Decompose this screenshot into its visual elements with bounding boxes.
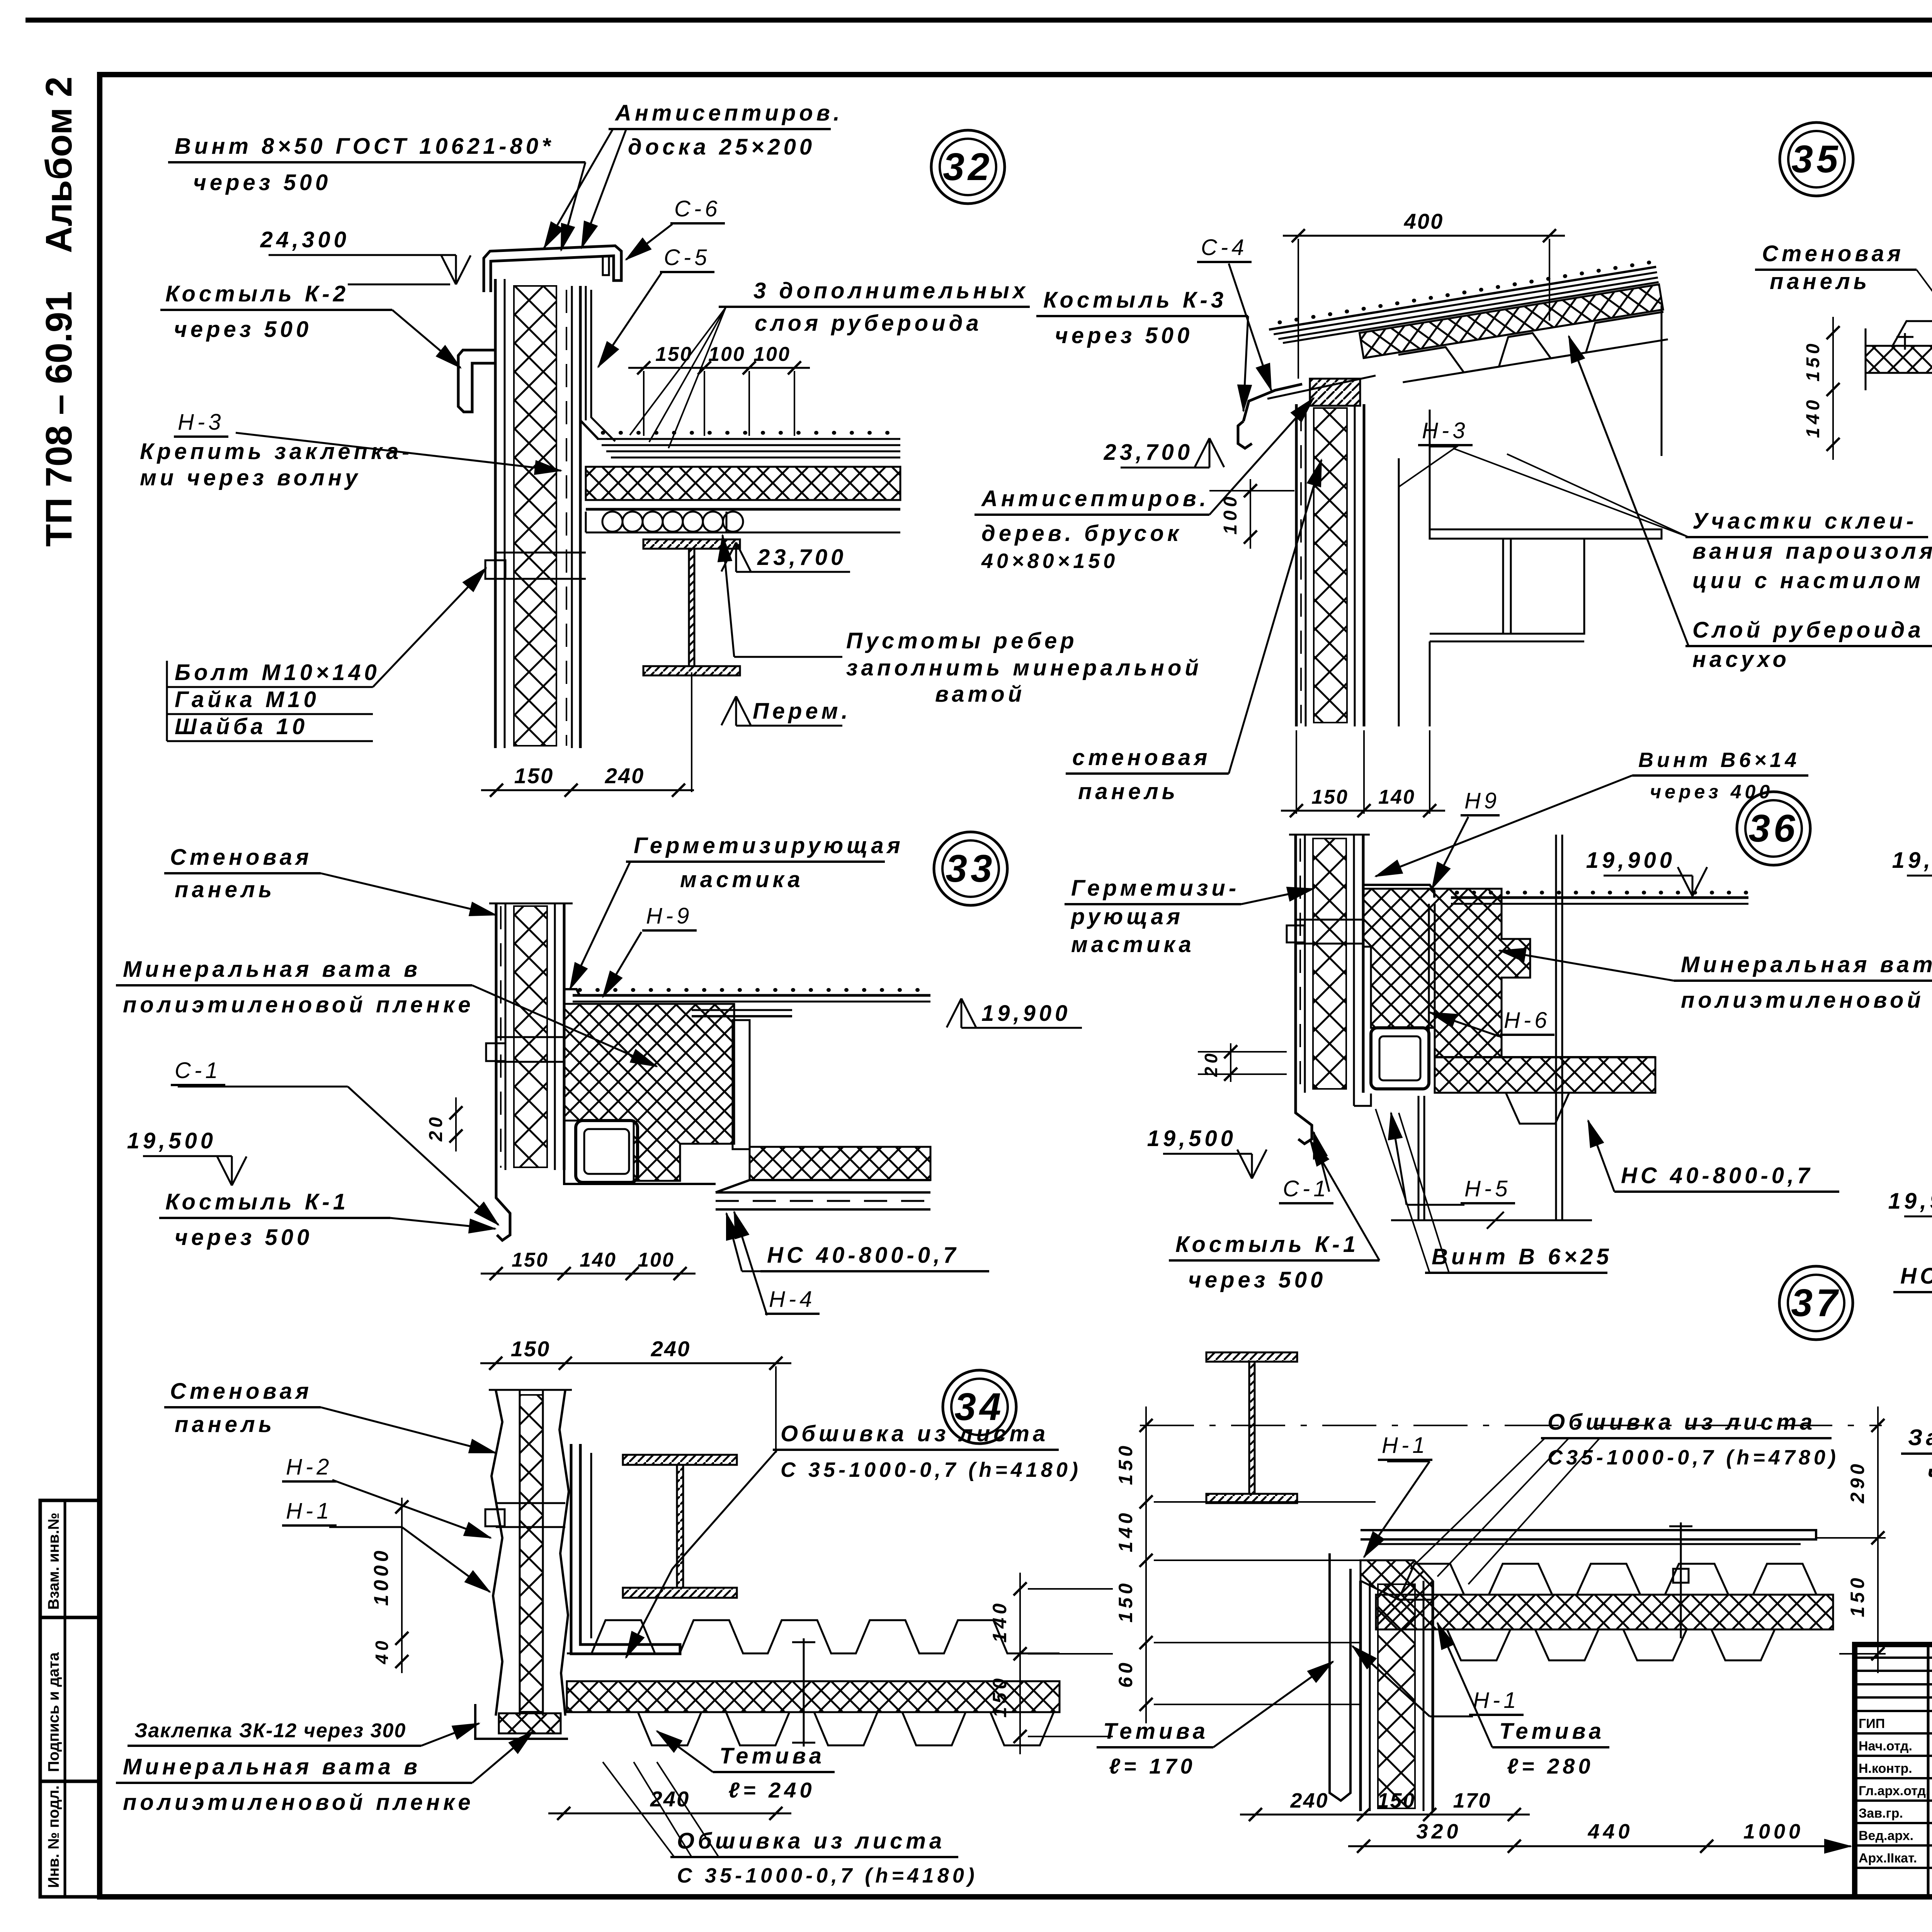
detail 36 wall panel xyxy=(1294,835,1297,1093)
svg-text:33: 33 xyxy=(946,847,995,890)
svg-text:ции с настилом: ции с настилом xyxy=(1692,568,1924,593)
left attachment box Подпись и дата xyxy=(40,1617,100,1781)
svg-text:Н-6: Н-6 xyxy=(1504,1008,1550,1033)
svg-text:150: 150 xyxy=(512,1249,549,1271)
svg-text:Винт 8×50 ГОСТ 10621-80*: Винт 8×50 ГОСТ 10621-80* xyxy=(175,134,554,159)
svg-text:Пустоты ребер: Пустоты ребер xyxy=(846,628,1078,653)
svg-text:НС 40-800-0,7: НС 40-800-0,7 xyxy=(767,1243,959,1268)
svg-text:150: 150 xyxy=(1115,1580,1136,1622)
elevation Перем. xyxy=(735,696,737,726)
svg-text:Н-1: Н-1 xyxy=(286,1498,332,1524)
svg-text:рующая: рующая xyxy=(1070,904,1184,929)
svg-text:Шайба 10: Шайба 10 xyxy=(175,714,308,739)
svg-text:ми через волну: ми через волну xyxy=(140,465,361,490)
detail 36 ceiling line el 19900 xyxy=(1457,891,1746,895)
svg-text:Обшивка из листа: Обшивка из листа xyxy=(1548,1410,1816,1435)
dimension 150 140 bottom of detail 35 xyxy=(1281,810,1445,812)
svg-text:заполнить минеральной: заполнить минеральной xyxy=(846,655,1202,680)
svg-text:С-5: С-5 xyxy=(664,245,710,270)
detail 37 rail bolt xyxy=(1680,1522,1682,1638)
svg-text:150: 150 xyxy=(1377,1789,1415,1812)
svg-text:150: 150 xyxy=(1803,340,1823,381)
svg-text:60: 60 xyxy=(1115,1659,1136,1688)
svg-text:35: 35 xyxy=(1791,138,1841,181)
svg-text:100: 100 xyxy=(708,343,745,366)
detail 32 steel beam under deck xyxy=(643,539,740,549)
dimension 140 150 right of detail 34 xyxy=(1019,1573,1021,1754)
dimension 20 detail 36 xyxy=(1230,1043,1231,1082)
detail 37 corner hatched block xyxy=(1361,1560,1433,1600)
sheet outer top border line xyxy=(26,18,1932,23)
svg-text:Н9: Н9 xyxy=(1464,788,1500,813)
svg-text:140: 140 xyxy=(989,1600,1010,1643)
svg-text:Гайка М10: Гайка М10 xyxy=(175,687,320,712)
svg-text:Обшивка из листа: Обшивка из листа xyxy=(781,1421,1049,1446)
svg-text:19,500: 19,500 xyxy=(1147,1126,1236,1151)
svg-text:290: 290 xyxy=(1847,1461,1868,1503)
detail 32 roof membrane layers xyxy=(603,431,888,435)
svg-text:ТП 708 – 60.91: ТП 708 – 60.91 xyxy=(38,291,80,547)
detail 32 bolt through panel xyxy=(485,560,505,579)
svg-text:440: 440 xyxy=(1587,1820,1633,1843)
svg-text:140: 140 xyxy=(1115,1510,1136,1552)
svg-text:ГИП: ГИП xyxy=(1859,1716,1885,1731)
detail 32 panel vapour barrier dashed line xyxy=(566,290,567,746)
svg-text:150: 150 xyxy=(1847,1575,1868,1617)
detail 36 square tube xyxy=(1371,1028,1429,1089)
svg-text:слоя рубероида: слоя рубероида xyxy=(755,311,982,336)
dimension 150 140 100 detail 33 xyxy=(481,1273,696,1275)
detail 35 purlin and web members xyxy=(1398,458,1400,572)
svg-text:Винт В 6×25: Винт В 6×25 xyxy=(1432,1244,1612,1269)
detail 35 wood block on wall top xyxy=(1310,379,1360,406)
leader to cap xyxy=(561,162,585,250)
svg-text:23,700: 23,700 xyxy=(1104,440,1193,465)
title block vertical dividers xyxy=(1927,1645,1930,1897)
svg-text:ℓ= 240: ℓ= 240 xyxy=(728,1778,815,1802)
detail 33 bottom flashing C-1 xyxy=(496,1170,510,1240)
svg-text:100: 100 xyxy=(753,343,791,366)
svg-text:20: 20 xyxy=(1201,1050,1221,1077)
svg-text:Антисептиров.: Антисептиров. xyxy=(614,100,843,126)
svg-text:19,900: 19,900 xyxy=(1888,1189,1932,1214)
svg-text:24,300: 24,300 xyxy=(260,227,350,252)
detail 33 panel top break line xyxy=(489,903,573,905)
svg-text:240: 240 xyxy=(605,764,645,788)
svg-text:дерев. брусок: дерев. брусок xyxy=(981,521,1182,546)
svg-text:Участки склеи-: Участки склеи- xyxy=(1692,509,1917,534)
node number circle 36 xyxy=(1737,792,1810,865)
svg-text:Обшивка из листа: Обшивка из листа xyxy=(677,1828,945,1854)
svg-text:стеновая: стеновая xyxy=(1072,745,1211,770)
svg-text:400: 400 xyxy=(1404,209,1444,233)
svg-text:150: 150 xyxy=(989,1675,1010,1718)
detail 34 bolt through panel xyxy=(485,1509,505,1526)
detail 33 ceiling deck line el 19900 xyxy=(580,988,918,992)
detail 34 I-beam xyxy=(623,1455,737,1465)
left attachment box Инв. № подл. xyxy=(40,1781,100,1897)
svg-text:полиэтиленовой пленке: полиэтиленовой пленке xyxy=(1681,988,1932,1013)
svg-text:Заклепка ЗК-12: Заклепка ЗК-12 xyxy=(1908,1425,1932,1450)
leader bolt list to panel xyxy=(373,568,486,687)
svg-text:19,900: 19,900 xyxy=(1892,848,1932,873)
detail 34 floor deck xyxy=(567,1620,1060,1653)
svg-text:Костыль К-3: Костыль К-3 xyxy=(1043,287,1227,313)
svg-text:ℓ= 170: ℓ= 170 xyxy=(1109,1754,1196,1778)
svg-text:170: 170 xyxy=(1453,1789,1491,1812)
svg-text:Вед.арх.: Вед.арх. xyxy=(1859,1828,1913,1843)
svg-text:Антисептиров.: Антисептиров. xyxy=(981,486,1209,511)
svg-text:Подпись и дата: Подпись и дата xyxy=(45,1652,62,1772)
svg-text:мастика: мастика xyxy=(680,867,804,892)
node number circle 32 xyxy=(931,130,1005,204)
svg-text:150: 150 xyxy=(514,764,554,788)
svg-text:через 500: через 500 xyxy=(1188,1267,1326,1293)
svg-text:240: 240 xyxy=(651,1337,690,1361)
svg-text:НС 40-800-0,7: НС 40-800-0,7 xyxy=(1900,1264,1932,1289)
svg-text:19,900: 19,900 xyxy=(981,1001,1071,1026)
detail 33 wall panel xyxy=(495,903,498,1170)
svg-text:панель: панель xyxy=(1770,269,1870,294)
svg-text:Зав.гр.: Зав.гр. xyxy=(1859,1806,1903,1821)
svg-text:150: 150 xyxy=(655,343,692,366)
svg-text:Альбом 2: Альбом 2 xyxy=(38,77,80,253)
detail 35 sloped roof package xyxy=(1268,262,1668,402)
svg-text:37: 37 xyxy=(1791,1281,1841,1325)
svg-text:140: 140 xyxy=(1803,396,1823,438)
detail 32 roof insulation crosshatch band xyxy=(586,467,900,500)
svg-text:полиэтиленовой пленке: полиэтиленовой пленке xyxy=(123,992,474,1017)
svg-text:Болт М10×140: Болт М10×140 xyxy=(175,660,380,685)
svg-text:панель: панель xyxy=(175,877,275,902)
svg-text:С 35-1000-0,7 (h=4180): С 35-1000-0,7 (h=4180) xyxy=(677,1864,978,1887)
svg-text:Герметизи-: Герметизи- xyxy=(1071,876,1240,901)
svg-text:С35-1000-0,7 (h=4780): С35-1000-0,7 (h=4780) xyxy=(1548,1446,1839,1469)
svg-text:240: 240 xyxy=(1290,1789,1328,1812)
svg-text:Взам. инв.№: Взам. инв.№ xyxy=(45,1513,62,1610)
svg-text:Перем.: Перем. xyxy=(753,699,851,724)
svg-text:Тетива: Тетива xyxy=(1103,1719,1209,1744)
svg-text:через 500: через 500 xyxy=(175,1225,313,1250)
svg-text:Винт В6×14: Винт В6×14 xyxy=(1638,748,1800,772)
detail 36 bolt through panel xyxy=(1287,925,1304,942)
svg-text:панель: панель xyxy=(1078,779,1179,804)
detail 33 beam web vertical xyxy=(733,1020,750,1149)
detail 34 steel angle xyxy=(571,1444,680,1654)
detail 35 right cut line xyxy=(1661,305,1663,456)
svg-text:100: 100 xyxy=(1220,493,1241,534)
svg-text:100: 100 xyxy=(638,1249,675,1271)
node number circle 37 xyxy=(1779,1266,1853,1340)
svg-text:Н-2: Н-2 xyxy=(286,1454,332,1480)
detail 32 hook K-2 xyxy=(458,350,495,412)
svg-text:ℓ= 280: ℓ= 280 xyxy=(1507,1754,1594,1778)
detail 33 mineral wool wedge block xyxy=(564,1004,734,1181)
dimension 240 150 170 detail 37 xyxy=(1240,1814,1530,1816)
dimension 20 detail 33 xyxy=(449,1106,463,1119)
svg-text:Костыль К-2: Костыль К-2 xyxy=(165,281,349,306)
svg-text:150: 150 xyxy=(1115,1442,1136,1485)
dimension 150 100 100 over roof xyxy=(628,367,810,369)
svg-text:36: 36 xyxy=(1748,807,1798,850)
svg-text:Слой рубероида: Слой рубероида xyxy=(1692,617,1924,643)
detail 38 screw marks on panel xyxy=(1904,333,1906,350)
detail 32 beam centreline xyxy=(691,672,692,792)
elevation 23,700 detail 32 xyxy=(735,543,737,572)
detail 37 flashing H-1 vertical strip xyxy=(1330,1553,1350,1801)
svg-text:Инв. № подл.: Инв. № подл. xyxy=(45,1786,62,1888)
detail 37 I-beam top left xyxy=(1206,1352,1297,1362)
detail 33 square tube xyxy=(576,1121,638,1182)
svg-text:Тетива: Тетива xyxy=(1499,1719,1605,1744)
svg-text:вания пароизоля-: вания пароизоля- xyxy=(1692,539,1932,564)
svg-text:3 дополнительных: 3 дополнительных xyxy=(753,278,1029,303)
svg-text:Арх.IIкат.: Арх.IIкат. xyxy=(1859,1851,1917,1866)
svg-text:40×80×150: 40×80×150 xyxy=(981,549,1118,573)
svg-text:Н-3: Н-3 xyxy=(1422,418,1468,443)
detail 32 parapet cap C-6 xyxy=(484,246,621,292)
detail 34 wall panel with wavy edges xyxy=(492,1390,502,1716)
title block thin top rows xyxy=(1855,1656,1932,1659)
svg-text:С-6: С-6 xyxy=(674,196,721,221)
svg-text:насухо: насухо xyxy=(1692,647,1790,672)
svg-text:Н-4: Н-4 xyxy=(769,1287,815,1312)
svg-text:140: 140 xyxy=(580,1249,617,1271)
dimension 1000 40 vertical detail 34 xyxy=(401,1498,403,1673)
svg-text:Минеральная вата в: Минеральная вата в xyxy=(123,957,421,982)
detail 37 floor deck xyxy=(1376,1564,1833,1595)
dimension 240 bottom detail 34 xyxy=(548,1813,791,1815)
svg-text:23,700: 23,700 xyxy=(757,545,847,570)
elevation 19,900 detail 33 xyxy=(961,998,963,1028)
svg-text:панель: панель xyxy=(175,1412,275,1437)
svg-text:Костыль К-1: Костыль К-1 xyxy=(165,1189,349,1214)
svg-text:Н-1: Н-1 xyxy=(1382,1433,1428,1458)
svg-text:через 400: через 400 xyxy=(1650,781,1773,803)
detail 36 column flange lines xyxy=(1428,904,1430,1057)
detail 36 floor deck xyxy=(1435,1057,1655,1093)
svg-text:через 500: через 500 xyxy=(1055,323,1193,348)
detail 36 flashing H9 at ceiling xyxy=(1363,885,1434,898)
svg-text:Н-9: Н-9 xyxy=(646,903,692,929)
detail 36 column bottom tick xyxy=(1391,1219,1592,1221)
svg-text:150: 150 xyxy=(511,1337,550,1361)
detail 37 centreline dash-dot xyxy=(1140,1425,1882,1426)
svg-text:Нач.отд.: Нач.отд. xyxy=(1859,1739,1912,1753)
svg-text:19,500: 19,500 xyxy=(127,1128,216,1153)
detail 35 eave flashing C-4 xyxy=(1243,384,1302,421)
detail 38 left end break xyxy=(1865,328,1867,390)
svg-text:Герметизирующая: Герметизирующая xyxy=(634,833,904,858)
svg-text:Гл.арх.отд.: Гл.арх.отд. xyxy=(1859,1784,1929,1798)
left attachment box Взам. инв.№ xyxy=(40,1500,100,1617)
svg-text:полиэтиленовой пленке: полиэтиленовой пленке xyxy=(123,1790,474,1815)
detail 38 wall panel band (plan) xyxy=(1866,321,1932,346)
detail 34 deck fastener bolt xyxy=(803,1638,805,1747)
detail 35 wall panel xyxy=(1295,404,1298,726)
svg-text:Н-5: Н-5 xyxy=(1464,1176,1511,1201)
svg-text:Н-3: Н-3 xyxy=(178,410,224,435)
svg-text:Заклепка ЗК-12 через 300: Заклепка ЗК-12 через 300 xyxy=(134,1719,406,1742)
node number circle 35 xyxy=(1780,122,1853,196)
svg-text:19,900: 19,900 xyxy=(1586,848,1675,873)
title block staff rows xyxy=(1855,1732,1932,1735)
svg-text:20: 20 xyxy=(426,1114,446,1141)
svg-text:1000: 1000 xyxy=(1743,1820,1804,1843)
svg-text:мастика: мастика xyxy=(1071,932,1195,957)
detail 32 wall panel outer lines xyxy=(494,279,497,748)
svg-text:Минеральная вата в: Минеральная вата в xyxy=(1681,952,1932,977)
svg-text:С 35-1000-0,7 (h=4180): С 35-1000-0,7 (h=4180) xyxy=(781,1458,1082,1481)
svg-text:через 500: через 500 xyxy=(174,317,312,342)
svg-text:Стеновая: Стеновая xyxy=(170,1379,312,1404)
svg-text:140: 140 xyxy=(1378,786,1415,808)
detail 33 flashing H-9 corner xyxy=(564,989,580,995)
svg-text:через 500: через 500 xyxy=(193,170,331,195)
dimension 150 240 top of detail 34 xyxy=(480,1362,791,1364)
detail 36 bottom flashing C-1 xyxy=(1296,1093,1312,1144)
svg-text:Н.контр.: Н.контр. xyxy=(1859,1761,1912,1776)
svg-text:через 400: через 400 xyxy=(1927,1461,1932,1486)
svg-text:Стеновая: Стеновая xyxy=(170,845,312,870)
svg-text:Стеновая: Стеновая xyxy=(1762,241,1904,266)
dimension 290 150 right of detail 37 xyxy=(1877,1406,1879,1673)
svg-text:32: 32 xyxy=(943,145,993,189)
svg-text:Костыль К-1: Костыль К-1 xyxy=(1175,1232,1359,1257)
svg-text:С-1: С-1 xyxy=(175,1058,221,1083)
node number circle 34 xyxy=(943,1370,1016,1444)
svg-text:Н-1: Н-1 xyxy=(1473,1688,1519,1713)
node number circle 33 xyxy=(934,832,1007,905)
title block outer box xyxy=(1855,1645,1932,1897)
detail 34 bottom hatched block xyxy=(499,1713,561,1733)
detail 37 top rail plate xyxy=(1361,1530,1816,1539)
detail 32 wall panel crosshatch core xyxy=(514,286,556,746)
svg-text:40: 40 xyxy=(372,1637,392,1664)
detail 33 bolt through panel xyxy=(486,1043,505,1061)
svg-text:С-1: С-1 xyxy=(1283,1176,1329,1201)
detail 36 mineral wool block xyxy=(1363,889,1530,1057)
dimension 400 top of detail 35 xyxy=(1283,235,1565,237)
dimension 320 440 1000 detail 37 xyxy=(1348,1845,1851,1847)
dimension 150 140 left of detail 38 xyxy=(1832,317,1834,460)
svg-text:320: 320 xyxy=(1416,1820,1461,1843)
svg-text:Минеральная вата в: Минеральная вата в xyxy=(123,1754,421,1779)
svg-text:НС 40-800-0,7: НС 40-800-0,7 xyxy=(1621,1163,1813,1188)
svg-text:150: 150 xyxy=(1311,786,1349,808)
svg-text:Тетива: Тетива xyxy=(719,1743,825,1769)
detail 33 floor deck right xyxy=(750,1147,930,1180)
detail 32 flashing C-5 on panel face xyxy=(585,286,587,420)
detail 32 roof deck lines below insulation xyxy=(586,499,900,501)
svg-text:1000: 1000 xyxy=(370,1547,393,1606)
detail 37 left dimension chain 150 140 150 60 xyxy=(1145,1406,1147,1723)
dimension 150 240 bottom of detail 32 xyxy=(481,789,694,791)
detail 32 rib void zone with circles xyxy=(602,512,743,532)
svg-text:С-4: С-4 xyxy=(1201,235,1247,260)
svg-text:ватой: ватой xyxy=(935,682,1025,707)
svg-text:доска 25×200: доска 25×200 xyxy=(628,134,815,160)
dimension 100 left of detail 35 xyxy=(1250,479,1251,549)
detail 37 wall panel below xyxy=(1359,1581,1362,1811)
svg-text:Крепить заклепка-: Крепить заклепка- xyxy=(140,439,413,464)
